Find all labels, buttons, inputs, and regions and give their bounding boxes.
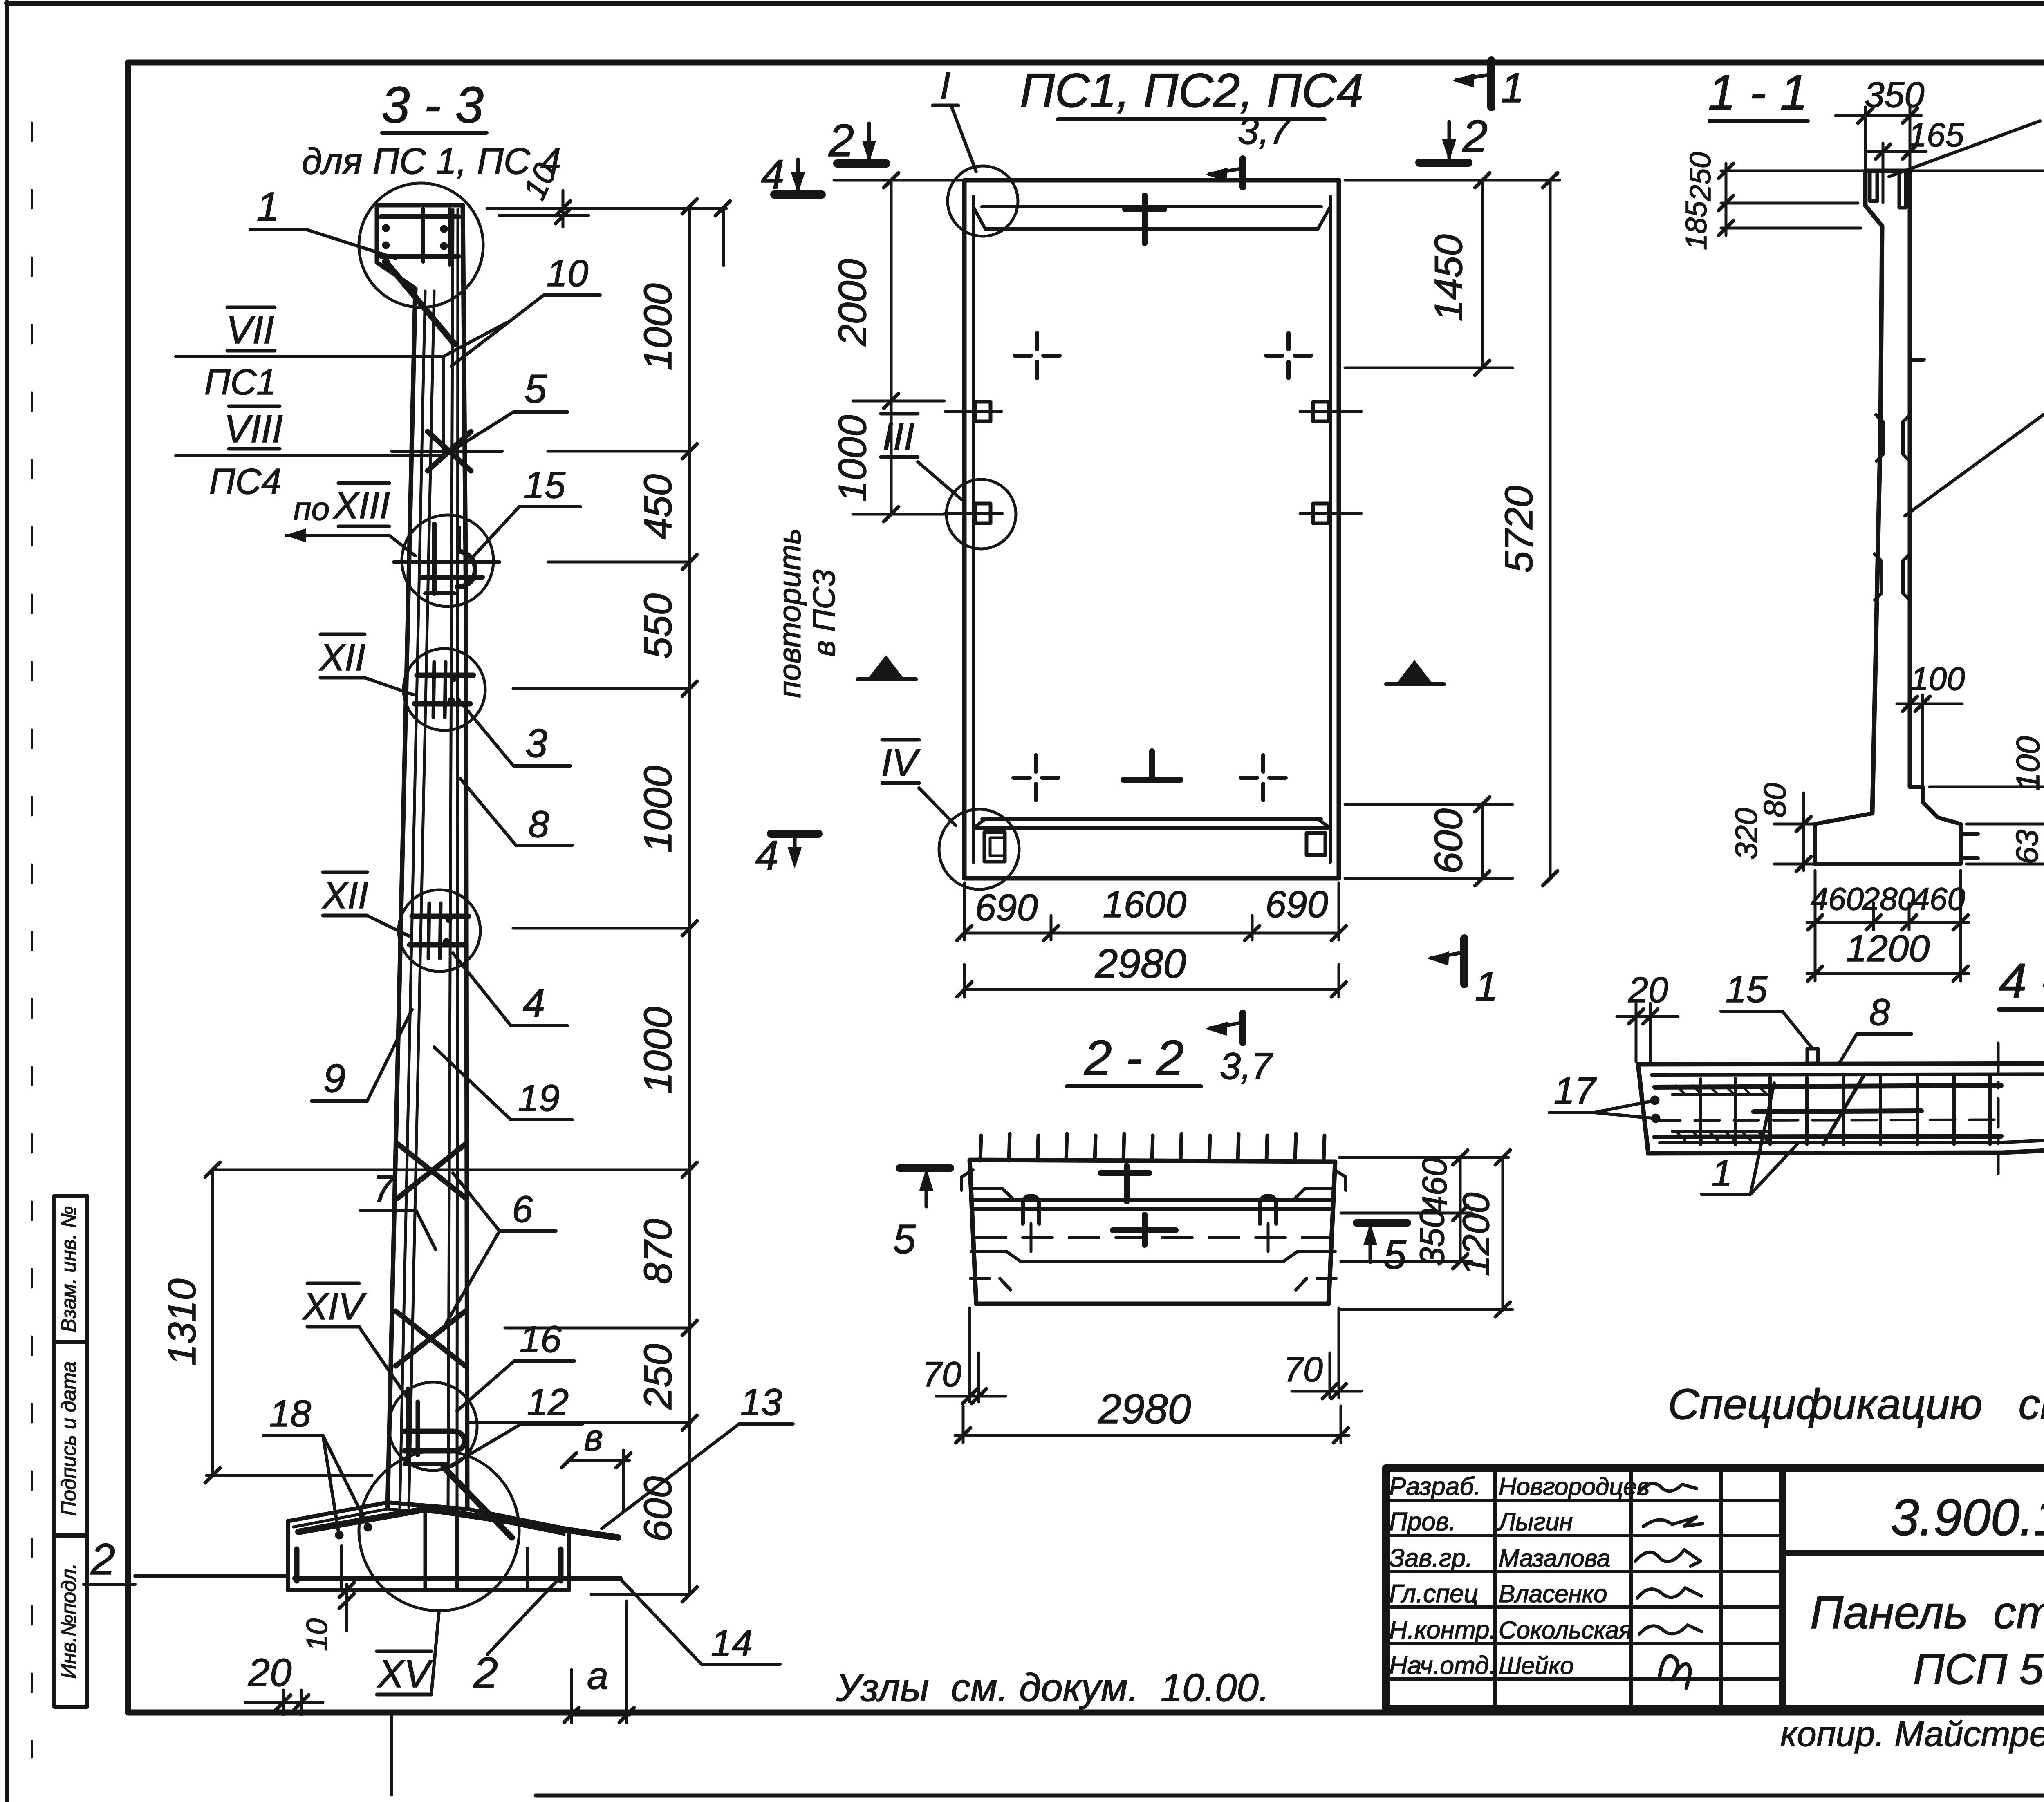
gran leader xyxy=(1905,387,2044,516)
signature squiggles xyxy=(1639,1484,1697,1492)
svg-text:ПС1, ПС2, ПС4: ПС1, ПС2, ПС4 xyxy=(1020,64,1363,118)
dim 5720 plan xyxy=(1549,180,1552,878)
cage horizontal bars xyxy=(1655,1086,2001,1087)
svg-text:9: 9 xyxy=(323,1056,346,1101)
svg-text:460: 460 xyxy=(1415,1157,1454,1215)
svg-text:Взам. инв. №: Взам. инв. № xyxy=(57,1206,80,1332)
detail circle XII upper xyxy=(403,649,485,730)
svg-text:10: 10 xyxy=(547,253,588,294)
plate bottom right xyxy=(1307,833,1325,855)
plate right at 1258 xyxy=(1313,504,1329,523)
small mark right edge xyxy=(1910,358,1924,362)
svg-text:Шейко: Шейко xyxy=(1499,1652,1574,1679)
svg-text:12: 12 xyxy=(527,1381,569,1423)
page edge artifact dashes xyxy=(31,123,33,1757)
dims 460 350 right of 2-2 xyxy=(1339,1156,1508,1159)
svg-text:Спецификацию см. лист 3.: Спецификацию см. лист 3. xyxy=(1668,1380,2044,1428)
svg-text:5: 5 xyxy=(1383,1232,1406,1278)
bar left end edge xyxy=(1638,1064,1648,1153)
level triangle right xyxy=(1397,661,1432,684)
svg-text:VIII: VIII xyxy=(224,407,283,451)
title block outer box xyxy=(1386,1468,2044,1708)
bar item 13 bent xyxy=(298,1509,618,1538)
svg-text:Лыгин: Лыгин xyxy=(1497,1508,1573,1536)
svg-text:100: 100 xyxy=(1910,660,1965,697)
svg-text:Власенко: Власенко xyxy=(1499,1580,1607,1607)
dim 600 right bottom xyxy=(1481,804,1484,878)
center dash-dot line xyxy=(1997,1043,2000,1174)
VIII pointer line xyxy=(176,454,444,457)
svg-text:3.900.1-10.2-7 -06.00: 3.900.1-10.2-7 -06.00 xyxy=(1891,1489,2044,1546)
panel outer rectangle xyxy=(964,180,1339,878)
plate right mid xyxy=(1313,402,1329,421)
svg-text:250: 250 xyxy=(1684,152,1717,201)
keyway notch pair lower xyxy=(1874,554,1881,600)
svg-text:VII: VII xyxy=(226,308,274,352)
svg-text:2 - 2: 2 - 2 xyxy=(1084,1030,1184,1086)
dim 1450 right xyxy=(1481,180,1484,368)
svg-text:10: 10 xyxy=(301,1618,334,1651)
svg-text:2: 2 xyxy=(1462,111,1488,162)
plate bottom left xyxy=(984,832,1005,862)
svg-text:в: в xyxy=(584,1417,603,1458)
bottom T mark xyxy=(1149,751,1155,780)
top T mark xyxy=(1125,206,1164,212)
outer border top xyxy=(7,1,2044,6)
dim 2980 of 2-2 xyxy=(962,1406,965,1443)
svg-text:16: 16 xyxy=(520,1318,562,1360)
svg-text:1000: 1000 xyxy=(636,283,680,371)
svg-text:1000: 1000 xyxy=(831,415,874,502)
svg-text:1000: 1000 xyxy=(636,766,680,853)
svg-text:1: 1 xyxy=(1501,65,1524,111)
bar bottom inner line xyxy=(1660,1127,2044,1143)
svg-text:3: 3 xyxy=(525,721,548,766)
hatch strip top xyxy=(1672,1086,1770,1095)
cap inner horizontal bars xyxy=(381,214,459,219)
svg-text:1450: 1450 xyxy=(1427,234,1470,322)
bar top inner line xyxy=(1652,1074,2044,1075)
svg-text:7: 7 xyxy=(373,1168,395,1210)
document number cell xyxy=(1782,1550,2044,1556)
bottom dims 460 280 460 xyxy=(1814,871,1817,981)
svg-text:XII: XII xyxy=(319,637,365,678)
svg-text:15: 15 xyxy=(524,464,566,506)
svg-text:IV: IV xyxy=(881,741,921,784)
svg-text:Разраб.: Разраб. xyxy=(1389,1473,1481,1501)
svg-text:280: 280 xyxy=(1862,881,1915,917)
detail circle XIII xyxy=(402,515,493,607)
column outline top and left xyxy=(1865,169,1910,173)
plus mark lower xyxy=(1113,1227,1176,1233)
dim 2000 left xyxy=(890,180,893,514)
svg-text:1 - 1: 1 - 1 xyxy=(1708,65,1808,120)
svg-text:460: 460 xyxy=(1912,881,1965,917)
svg-text:4: 4 xyxy=(523,980,545,1025)
footing outline xyxy=(288,1502,569,1529)
lifting loop left xyxy=(1023,1196,1039,1224)
cap notch left xyxy=(1870,172,1877,201)
svg-text:63: 63 xyxy=(2010,830,2044,864)
footing 1-1 xyxy=(1815,813,1961,864)
svg-text:15: 15 xyxy=(1726,969,1768,1010)
approval table verticals xyxy=(1493,1468,1497,1708)
inner right edge xyxy=(1329,196,1332,862)
body outline xyxy=(970,1160,1335,1304)
svg-text:копир. Майстренко24399-01 23: копир. Майстренко24399-01 23 Формат А3 xyxy=(1780,1715,2044,1754)
svg-text:19: 19 xyxy=(518,1077,560,1119)
svg-text:20: 20 xyxy=(1628,969,1668,1010)
svg-text:3,7: 3,7 xyxy=(1238,110,1291,152)
svg-text:Пров.: Пров. xyxy=(1389,1508,1456,1536)
svg-text:1200: 1200 xyxy=(1455,1193,1497,1276)
left margin stamp boxes xyxy=(54,1196,87,1707)
svg-text:690: 690 xyxy=(975,887,1038,929)
svg-text:70: 70 xyxy=(1284,1350,1323,1389)
cross mark bottom left xyxy=(1013,755,1058,800)
level triangle left xyxy=(868,656,903,679)
cap bent bar diagonal xyxy=(388,265,455,344)
footing rebar stubs xyxy=(1961,832,1978,836)
top band chamfers xyxy=(973,207,985,229)
svg-text:3 - 3: 3 - 3 xyxy=(381,77,484,134)
svg-text:Н.контр.: Н.контр. xyxy=(1389,1616,1497,1644)
svg-text:2: 2 xyxy=(828,115,854,166)
dim 2980 plan xyxy=(963,965,966,997)
corner notches top xyxy=(973,1189,1014,1200)
cap hook bar left xyxy=(421,209,425,262)
svg-text:в ПС3: в ПС3 xyxy=(807,569,842,656)
cap notch right xyxy=(1899,172,1906,208)
svg-text:4 - 4: 4 - 4 xyxy=(1999,953,2044,1009)
svg-text:1600: 1600 xyxy=(1103,884,1187,925)
svg-text:8: 8 xyxy=(1869,992,1890,1033)
cage diagonal xyxy=(1823,1075,1864,1144)
inner rebar line 4 xyxy=(457,209,458,1507)
top dowel spikes xyxy=(980,1134,1325,1161)
svg-text:185: 185 xyxy=(1680,201,1713,250)
svg-text:по: по xyxy=(294,490,330,527)
corner chamfer marks xyxy=(961,1170,973,1190)
svg-text:Нач.отд.: Нач.отд. xyxy=(1389,1652,1496,1680)
footing inner top line xyxy=(294,1509,564,1534)
lug item 15 xyxy=(1807,1049,1818,1063)
plate in III xyxy=(975,504,991,523)
svg-text:870: 870 xyxy=(636,1219,680,1284)
svg-text:4: 4 xyxy=(755,832,779,879)
svg-text:XII: XII xyxy=(322,875,368,916)
detail circle I on corner xyxy=(948,166,1018,236)
svg-text:100: 100 xyxy=(2010,736,2044,790)
hatch strip bottom xyxy=(1672,1131,1770,1140)
svg-text:Гл.спец: Гл.спец xyxy=(1389,1580,1478,1608)
svg-text:ПС1: ПС1 xyxy=(204,362,276,402)
cross mark top left xyxy=(1015,333,1060,378)
outer border bottom xyxy=(536,1794,2044,1798)
svg-text:250: 250 xyxy=(636,1344,680,1410)
bar bottom edge xyxy=(1648,1137,2044,1153)
svg-text:8: 8 xyxy=(528,804,549,845)
svg-text:2980: 2980 xyxy=(1098,1386,1191,1432)
svg-text:Зав.гр.: Зав.гр. xyxy=(1389,1544,1472,1572)
lifting loop right xyxy=(1260,1196,1276,1224)
svg-text:80: 80 xyxy=(1758,783,1793,818)
svg-text:460: 460 xyxy=(1811,881,1864,917)
top cap outline xyxy=(377,205,463,289)
cage dashed line xyxy=(1656,1120,1999,1121)
svg-text:350: 350 xyxy=(1413,1209,1451,1266)
extension line top right xyxy=(1912,170,2044,172)
svg-text:Подпись и дата: Подпись и дата xyxy=(57,1361,80,1516)
dim 1310 left chain xyxy=(211,1170,214,1475)
column outline right xyxy=(1908,171,1912,787)
VII pointer line xyxy=(176,355,444,358)
T mark top xyxy=(1100,1170,1150,1176)
dim 1200 right of 2-2 xyxy=(1502,1157,1504,1310)
heading underline xyxy=(1058,117,1325,121)
svg-text:1200: 1200 xyxy=(1846,928,1930,969)
keyway notch pair upper xyxy=(1876,415,1883,461)
svg-text:17: 17 xyxy=(1554,1070,1597,1112)
dim 690 1600 690 xyxy=(963,883,966,940)
svg-text:XIV: XIV xyxy=(302,1286,367,1327)
top detail circle xyxy=(359,183,483,307)
svg-text:ПСП 54: ПСП 54 xyxy=(1913,1645,2044,1693)
svg-text:1: 1 xyxy=(1711,1153,1732,1194)
svg-text:Инв.№подл.: Инв.№подл. xyxy=(57,1563,80,1679)
svg-text:2980: 2980 xyxy=(1095,941,1186,987)
top band line 2 xyxy=(985,227,1318,231)
svg-text:5720: 5720 xyxy=(1497,486,1541,573)
section mark 1 bottom xyxy=(1460,938,1468,984)
svg-text:Сокольская: Сокольская xyxy=(1499,1616,1632,1644)
svg-text:2000: 2000 xyxy=(831,259,874,347)
approval table row lines xyxy=(1386,1499,1782,1502)
inner rebar line 2 xyxy=(409,291,434,1507)
detail circle XIV xyxy=(389,1382,477,1471)
svg-text:1: 1 xyxy=(256,184,279,230)
bottom dashed notches xyxy=(970,1278,1011,1290)
svg-text:70: 70 xyxy=(922,1355,961,1394)
svg-text:ПС4: ПС4 xyxy=(209,461,281,501)
detail circle IV xyxy=(939,809,1019,889)
bar item 12 diagonal xyxy=(444,1467,512,1538)
cross mark top right xyxy=(1266,333,1311,378)
svg-text:для ПС 1, ПС 4: для ПС 1, ПС 4 xyxy=(302,141,561,182)
X bracing upper xyxy=(397,1144,466,1198)
svg-text:1000: 1000 xyxy=(636,1007,680,1094)
column left edge xyxy=(388,289,415,1507)
svg-text:III: III xyxy=(883,415,914,458)
top band line 1 xyxy=(982,205,1321,208)
svg-text:Панель стеновая: Панель стеновая xyxy=(1810,1587,2044,1638)
svg-text:550: 550 xyxy=(636,593,680,659)
svg-text:600: 600 xyxy=(1427,808,1470,874)
svg-text:13: 13 xyxy=(740,1381,782,1423)
svg-text:2: 2 xyxy=(90,1534,115,1584)
mid band line 1 xyxy=(973,1198,1334,1202)
detail circle XII lower xyxy=(399,890,480,972)
svg-text:Новгородцев: Новгородцев xyxy=(1499,1473,1650,1500)
section mark 3,7 bottom xyxy=(1239,1013,1246,1043)
svg-text:6: 6 xyxy=(512,1189,533,1230)
po XIII arrow xyxy=(286,534,389,537)
X bracing lower xyxy=(396,1311,465,1366)
mid band line 2 xyxy=(972,1207,1334,1211)
dim chain right vertical xyxy=(688,206,691,1594)
bar top edge xyxy=(1638,1063,2044,1064)
svg-text:18: 18 xyxy=(269,1393,311,1435)
svg-text:XIII: XIII xyxy=(333,485,390,526)
svg-text:3,7: 3,7 xyxy=(1220,1045,1273,1087)
outer border left xyxy=(5,2,9,1802)
svg-text:690: 690 xyxy=(1265,884,1328,925)
cap rebar dots xyxy=(382,224,390,232)
svg-text:а: а xyxy=(587,1654,608,1697)
detail circle XV xyxy=(359,1451,519,1611)
svg-text:165: 165 xyxy=(1908,116,1964,154)
chain slash ticks xyxy=(682,199,697,214)
detail circle III xyxy=(946,479,1016,549)
plate left mid xyxy=(975,402,991,421)
cross mark bottom right xyxy=(1241,755,1286,800)
section mark 5 right xyxy=(1356,1219,1407,1227)
inner left edge xyxy=(972,196,975,862)
section mark 5 left xyxy=(899,1164,950,1172)
hooks inside XIV xyxy=(406,1389,410,1464)
dashed mid line xyxy=(976,1236,1331,1239)
svg-text:I: I xyxy=(940,64,950,107)
dim 1200 section xyxy=(1807,972,1969,975)
svg-text:1310: 1310 xyxy=(160,1278,204,1366)
svg-text:повторить: повторить xyxy=(773,528,807,698)
svg-text:14: 14 xyxy=(711,1623,753,1664)
section mark 1 top xyxy=(1487,60,1495,107)
svg-text:5: 5 xyxy=(893,1216,916,1262)
svg-text:1: 1 xyxy=(1475,963,1498,1010)
footing bottom rebar xyxy=(295,1576,620,1581)
fold mark line xyxy=(390,1712,393,1795)
bottom band chamfers xyxy=(973,819,985,828)
cap hook bar right xyxy=(448,209,452,265)
svg-text:2: 2 xyxy=(473,1648,498,1697)
svg-text:450: 450 xyxy=(636,474,680,539)
svg-text:Мазалова: Мазалова xyxy=(1499,1545,1610,1572)
heading underline xyxy=(382,131,486,135)
svg-text:Узлы см. докум. 10.00.: Узлы см. докум. 10.00. xyxy=(836,1666,1270,1710)
VII VIII bracket vertical xyxy=(442,356,445,456)
cage verticals xyxy=(1701,1075,1990,1144)
column verticals into footing xyxy=(424,1507,427,1590)
X tie mark at 1104 xyxy=(428,432,471,471)
inner rebar line 3 xyxy=(448,209,453,1507)
inner rebar line 1 xyxy=(400,291,425,1507)
bottom band line 2 xyxy=(973,826,1330,830)
lower band line xyxy=(971,1251,1335,1261)
bottom band line 1 xyxy=(982,817,1321,821)
svg-text:XV: XV xyxy=(377,1652,433,1696)
column right edge xyxy=(463,205,467,1509)
svg-text:20: 20 xyxy=(248,1651,292,1695)
step at right base xyxy=(1910,787,1961,824)
hook inside XIII xyxy=(432,524,437,593)
svg-text:5: 5 xyxy=(524,366,547,411)
